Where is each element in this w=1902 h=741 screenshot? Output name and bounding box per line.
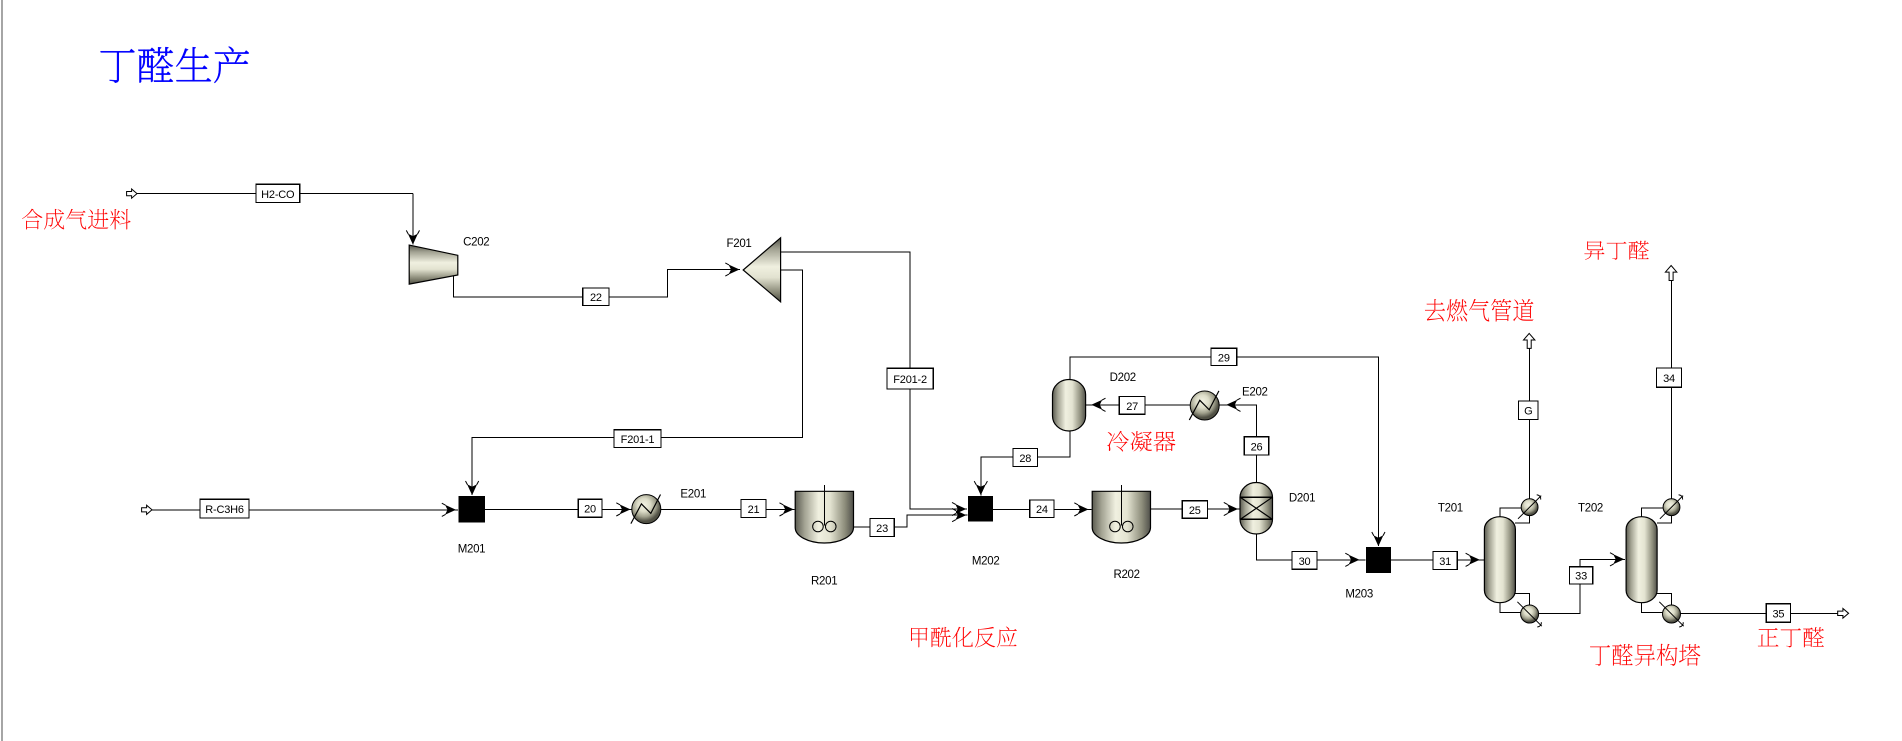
svg-text:R-C3H6: R-C3H6 [205, 504, 244, 516]
svg-text:R202: R202 [1113, 569, 1139, 581]
svg-text:22: 22 [590, 292, 602, 304]
svg-text:F201-2: F201-2 [893, 374, 927, 386]
svg-text:29: 29 [1218, 352, 1230, 364]
svg-text:M201: M201 [458, 544, 486, 556]
svg-text:D201: D201 [1289, 493, 1315, 505]
svg-text:31: 31 [1439, 556, 1451, 568]
svg-text:F201-1: F201-1 [621, 434, 655, 446]
svg-text:20: 20 [584, 504, 596, 516]
svg-text:M203: M203 [1345, 589, 1373, 601]
svg-text:33: 33 [1575, 571, 1587, 583]
svg-text:34: 34 [1663, 373, 1675, 385]
svg-text:23: 23 [876, 523, 888, 535]
svg-text:M202: M202 [972, 556, 1000, 568]
svg-text:T201: T201 [1438, 502, 1463, 514]
svg-text:E201: E201 [680, 489, 706, 501]
svg-text:G: G [1524, 406, 1532, 418]
svg-text:27: 27 [1126, 401, 1138, 413]
svg-text:28: 28 [1019, 453, 1031, 465]
svg-text:F201: F201 [727, 238, 752, 250]
svg-text:24: 24 [1036, 504, 1048, 516]
svg-text:35: 35 [1773, 608, 1785, 620]
svg-text:H2-CO: H2-CO [261, 189, 295, 201]
svg-text:25: 25 [1189, 505, 1201, 517]
svg-text:T202: T202 [1578, 502, 1603, 514]
svg-text:E202: E202 [1242, 386, 1268, 398]
svg-text:C202: C202 [463, 236, 489, 248]
svg-text:30: 30 [1299, 556, 1311, 568]
svg-text:R201: R201 [811, 575, 837, 587]
svg-text:21: 21 [748, 504, 760, 516]
svg-text:26: 26 [1251, 441, 1263, 453]
svg-text:D202: D202 [1110, 372, 1136, 384]
